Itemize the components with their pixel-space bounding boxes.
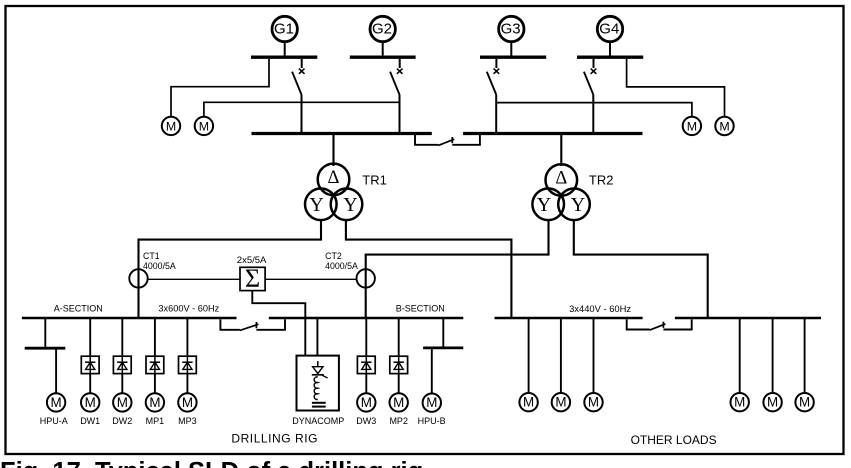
breaker CB3 blade (487, 72, 496, 95)
generator G1 (272, 16, 297, 41)
svg-text:M: M (426, 395, 437, 410)
wire main bus to transformer TR1 (332, 134, 334, 167)
svg-text:M: M (687, 119, 697, 133)
wire main bus to transformer TR2 (560, 134, 562, 167)
wire bus to MP3 (186, 319, 188, 356)
generator busbar G1 (251, 56, 317, 59)
current transformer CT2 (357, 269, 375, 287)
svg-text:TR2: TR2 (589, 173, 614, 188)
wire TR1 right wye to 440V bus (346, 219, 512, 317)
tie breaker TIE-440V right rise (691, 319, 693, 329)
motor DW2 (113, 393, 131, 411)
svg-text:DYNACOMP: DYNACOMP (292, 416, 344, 426)
tie breaker TIE-MAIN left link (414, 144, 438, 146)
drive converter MP2 (390, 356, 408, 373)
wire G4 bus to motor M-R2 (627, 59, 725, 117)
wire summation unit to DYNACOMP (252, 291, 305, 356)
svg-text:DW3: DW3 (356, 416, 376, 426)
wire 440V bus to motor M6 (560, 319, 562, 393)
summation unit 2x5/5A (240, 267, 265, 290)
wire DW3 drive to motor (365, 374, 367, 394)
tie breaker TIE-600V left link (220, 329, 240, 331)
wire G1 to bus (284, 42, 286, 56)
tie breaker TIE-440V left drop (626, 319, 628, 329)
motor M6 (552, 393, 570, 411)
tie breaker TIE-600V contact tick (255, 322, 257, 328)
generator G3 (499, 16, 524, 41)
svg-text:M: M (393, 395, 404, 410)
generator busbar G2 (350, 56, 416, 59)
tie breaker TIE-440V left link (626, 329, 650, 331)
wire breaker CB1 to main bus (301, 95, 303, 134)
breaker CB1 stub (301, 59, 303, 68)
current transformer CT1 (129, 269, 147, 287)
wire summation unit to CT2 (265, 278, 356, 280)
main busbar right section (463, 132, 642, 135)
DYNACOMP capacitor plates (312, 402, 326, 404)
generator busbar G3 (480, 56, 546, 59)
svg-text:3x600V - 60Hz: 3x600V - 60Hz (158, 304, 219, 314)
wire A bus to HPU-A subbus (44, 319, 46, 347)
transformer TR2 delta winding (546, 164, 578, 196)
wire TR1 left wye to CT1 (139, 219, 322, 270)
breaker CB3 x-mark (494, 69, 500, 74)
motor M-R1 (683, 117, 701, 135)
svg-text:M: M (166, 119, 176, 133)
wire HPU-A subbus to motor (55, 350, 57, 394)
svg-text:Σ: Σ (245, 264, 260, 293)
svg-text:G1: G1 (274, 20, 294, 37)
svg-text:HPU-B: HPU-B (418, 416, 446, 426)
wire bus to MP2 (398, 319, 400, 356)
svg-text:Y: Y (309, 194, 323, 216)
breaker CB2 blade (390, 72, 399, 95)
svg-text:M: M (588, 395, 599, 410)
motor HPU-B (423, 394, 441, 412)
svg-text:MP3: MP3 (178, 416, 197, 426)
breaker CB3 stub (495, 59, 497, 68)
wire bus to DW2 (121, 319, 123, 356)
busbar A-SECTION 3x600V (22, 317, 237, 320)
wire HPU-B subbus to motor (431, 349, 433, 393)
wire 440V bus to motor M7 (593, 319, 595, 393)
motor M-L2 (195, 117, 213, 135)
wire CT2 to B-section bus (365, 287, 367, 318)
wire breaker CB4 to main bus (592, 95, 594, 134)
generator busbar G4 (577, 56, 643, 59)
tie breaker TIE-440V contact tick (662, 322, 664, 328)
transformer TR1 delta winding (318, 164, 350, 196)
breaker CB1 blade (292, 72, 301, 95)
svg-text:M: M (523, 395, 534, 410)
svg-text:MP2: MP2 (389, 416, 408, 426)
wire G4 to bus (609, 42, 611, 56)
wire CT1 to summation unit (148, 278, 240, 280)
motor DW1 (81, 393, 99, 411)
svg-text:MP1: MP1 (146, 416, 165, 426)
svg-text:B-SECTION: B-SECTION (396, 304, 445, 314)
motor HPU-A (47, 393, 65, 411)
svg-text:Y: Y (571, 194, 585, 216)
motor DW3 (357, 393, 375, 411)
busbar B-SECTION 3x600V (269, 317, 464, 320)
breaker CB2 x-mark (397, 69, 403, 74)
svg-text:Y: Y (537, 194, 551, 216)
wire MP3 drive to motor (186, 374, 188, 394)
wire MP1 drive to motor (154, 374, 156, 394)
busbar 440V left section (495, 317, 643, 320)
DYNACOMP thyristor symbol (317, 361, 319, 367)
busbar 440V right section (675, 317, 821, 320)
svg-text:DW1: DW1 (80, 416, 100, 426)
svg-text:M: M (734, 395, 745, 410)
svg-text:Δ: Δ (555, 169, 567, 189)
tie breaker TIE-MAIN blade (438, 139, 454, 145)
svg-text:CT2: CT2 (325, 251, 342, 261)
wire CB3 to motor M-R1 (496, 103, 692, 117)
svg-text:G3: G3 (501, 20, 521, 37)
tie breaker TIE-MAIN left drop (414, 135, 416, 145)
svg-text:M: M (117, 395, 128, 410)
svg-text:M: M (555, 395, 566, 410)
transformer TR2 wye winding right (558, 189, 590, 221)
drive converter MP3 (179, 356, 197, 373)
motor MP3 (178, 393, 196, 411)
tie breaker TIE-MAIN contact tick (451, 137, 453, 143)
transformer TR2 wye winding left (532, 189, 564, 221)
tie breaker TIE-440V blade (650, 324, 666, 330)
wire CT2 line-through (365, 270, 367, 287)
generator G2 (370, 16, 395, 41)
tie breaker TIE-MAIN right rise (479, 135, 481, 145)
svg-text:CT1: CT1 (143, 251, 160, 261)
wire breaker CB3 to main bus (495, 95, 497, 134)
svg-text:4000/5A: 4000/5A (325, 261, 358, 271)
motor M8 (731, 393, 749, 411)
svg-text:M: M (719, 120, 729, 134)
motor M5 (519, 393, 537, 411)
svg-text:DRILLING RIG: DRILLING RIG (231, 431, 318, 445)
wire 440V bus to motor M10 (804, 319, 806, 393)
svg-text:HPU-A: HPU-A (40, 416, 68, 426)
transformer TR1 wye winding left (305, 189, 337, 221)
wire breaker CB2 to main bus (399, 95, 401, 134)
breaker CB2 stub (399, 59, 401, 68)
wire bus to MP1 (154, 319, 156, 356)
subbus HPU-B (423, 346, 463, 349)
DYNACOMP inductor (314, 377, 318, 400)
svg-text:Fig. 17. Typical SLD of a dril: Fig. 17. Typical SLD of a drilling rig (0, 458, 423, 468)
breaker CB4 x-mark (591, 69, 597, 74)
svg-text:OTHER LOADS: OTHER LOADS (631, 433, 717, 447)
wire G3 to bus (510, 42, 512, 56)
wire 440V bus to motor M9 (772, 319, 774, 393)
drive converter DW2 (113, 356, 131, 373)
svg-text:M: M (767, 395, 778, 410)
wire bus to DW3 (365, 319, 367, 356)
wire TR2 left wye to CT2 (366, 219, 549, 269)
svg-text:DW2: DW2 (112, 416, 132, 426)
svg-text:M: M (51, 395, 62, 410)
main busbar left section (252, 132, 432, 135)
motor MP1 (146, 393, 164, 411)
wire B bus to DYNACOMP (316, 319, 318, 356)
subbus HPU-A (25, 347, 66, 350)
breaker CB4 stub (593, 59, 595, 68)
breaker CB1 x-mark (299, 69, 305, 74)
wire CT1 line-through (137, 270, 139, 287)
svg-text:TR1: TR1 (362, 173, 387, 188)
motor M9 (763, 393, 781, 411)
motor M-R2 (715, 117, 733, 135)
motor MP2 (390, 393, 408, 411)
wire DW1 drive to motor (89, 374, 91, 394)
svg-text:2x5/5A: 2x5/5A (237, 255, 267, 266)
transformer TR1 wye winding right (331, 189, 363, 221)
wire G2 to bus (382, 42, 384, 56)
DYNACOMP box (297, 356, 339, 411)
svg-text:G2: G2 (372, 20, 392, 37)
motor M10 (795, 393, 813, 411)
svg-text:3x440V - 60Hz: 3x440V - 60Hz (569, 303, 631, 314)
svg-text:M: M (149, 395, 160, 410)
wire DW2 drive to motor (121, 374, 123, 394)
generator G4 (597, 16, 622, 41)
wire TR2 right wye to 440V bus (574, 219, 708, 317)
svg-text:M: M (361, 395, 372, 410)
svg-text:4000/5A: 4000/5A (143, 261, 176, 271)
drive converter DW1 (81, 356, 99, 373)
wire CT1 to A-section bus (137, 287, 139, 318)
wire 440V bus to motor M8 (739, 319, 741, 393)
breaker CB4 blade (584, 72, 593, 95)
svg-text:G4: G4 (599, 20, 619, 37)
motor M7 (584, 393, 602, 411)
wire 440V bus to motor M5 (528, 319, 530, 393)
tie breaker TIE-440V right link (663, 329, 692, 331)
wire G1 bus to motor M-L1 (171, 59, 269, 117)
wire MP2 drive to motor (398, 374, 400, 394)
tie breaker TIE-600V right link (256, 329, 286, 331)
wire bus to DW1 (89, 319, 91, 356)
wire B bus to HPU-B subbus (442, 319, 444, 347)
svg-text:M: M (199, 119, 209, 133)
svg-text:Δ: Δ (328, 168, 340, 188)
tie breaker TIE-600V left drop (219, 319, 221, 330)
tie breaker TIE-MAIN right link (452, 144, 481, 146)
svg-text:A-SECTION: A-SECTION (54, 304, 103, 314)
svg-text:M: M (85, 395, 96, 410)
motor M-L1 (162, 117, 180, 135)
drive converter DW3 (357, 356, 375, 373)
tie breaker TIE-600V right rise (284, 319, 286, 330)
wire CB2 to motor M-L2 (204, 102, 400, 116)
svg-text:M: M (799, 395, 810, 410)
svg-text:Y: Y (343, 194, 357, 216)
tie breaker TIE-600V blade (240, 324, 259, 330)
svg-text:M: M (182, 395, 193, 410)
drive converter MP1 (146, 356, 164, 373)
